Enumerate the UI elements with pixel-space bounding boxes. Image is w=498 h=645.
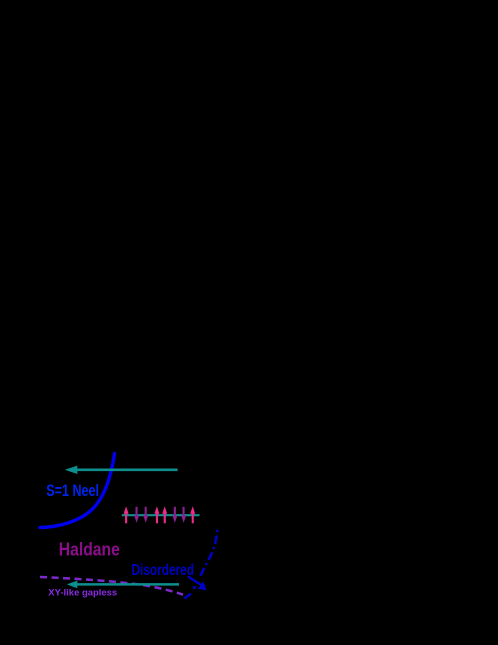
svg-text:XY-like gapless: XY-like gapless [48, 587, 117, 598]
svg-text:Disordered: Disordered [132, 562, 195, 579]
svg-text:S=1 Neel: S=1 Neel [46, 481, 99, 500]
svg-text:Haldane: Haldane [59, 539, 120, 560]
